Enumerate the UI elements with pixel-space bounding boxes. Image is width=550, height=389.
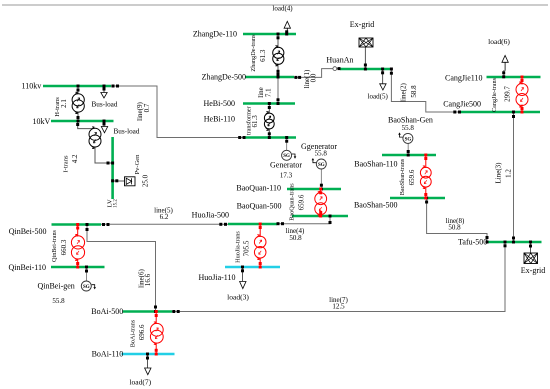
junction dots BoAi-110 xyxy=(146,353,149,356)
svg-text:25.0: 25.0 xyxy=(142,174,150,187)
svg-text:659.6: 659.6 xyxy=(297,194,305,210)
bus CangJie110 xyxy=(487,76,541,79)
svg-text:HuoJia-trans: HuoJia-trans xyxy=(235,231,242,263)
svg-text:10kV: 10kV xyxy=(33,117,51,126)
bus BaoQuan-500 xyxy=(292,215,348,218)
svg-text:load(6): load(6) xyxy=(488,37,510,46)
wire BaoQuan-trans stub top xyxy=(320,190,322,194)
svg-text:16.6: 16.6 xyxy=(144,273,152,286)
junction dots ZhangDe-110 xyxy=(277,33,280,36)
wire load(4) stem xyxy=(286,31,288,34)
external grid symbol Ex-grid top xyxy=(359,38,373,47)
wire ZhangDe-trans to ZhangDe-500 stub xyxy=(277,64,279,78)
wire line(1) after open circle xyxy=(337,68,340,70)
load arrow load(7) down xyxy=(145,368,151,375)
svg-text:BaoQuan-500: BaoQuan-500 xyxy=(237,201,282,210)
wire 10kV to I-trans xyxy=(78,122,92,129)
junction dots BaoQuan-500 xyxy=(329,215,332,218)
svg-text:BaoQuan-110: BaoQuan-110 xyxy=(236,183,281,192)
bus ZhangDe-500 xyxy=(245,76,294,79)
external grid symbol Ex-grid bottom xyxy=(524,253,538,264)
wire I-trans to LV bus xyxy=(95,147,113,164)
wire line(2) HuanAn to CangJie500 xyxy=(391,70,461,112)
wire QinBei-trans stub top xyxy=(77,226,79,237)
svg-text:CangJie110: CangJie110 xyxy=(445,74,482,83)
svg-text:55.8: 55.8 xyxy=(315,149,328,157)
wire line(7) Tafu-500 to BoAi-500 xyxy=(172,243,505,312)
wire Ex-grid bottom stem xyxy=(530,243,532,253)
svg-text:BaoShan-trans: BaoShan-trans xyxy=(399,158,406,195)
generator BaoShan-Gen xyxy=(403,133,413,143)
bus QinBei-110 xyxy=(51,266,105,269)
junction dots HuanAn xyxy=(338,67,341,70)
svg-text:58.8: 58.8 xyxy=(410,85,418,98)
transformer I-trans xyxy=(89,128,101,140)
bus BaoQuan-110 xyxy=(287,188,341,191)
svg-text:12.5: 12.5 xyxy=(332,303,345,311)
wire QinBei-gen stem xyxy=(86,268,88,282)
bus BoAi-110 xyxy=(122,353,175,356)
svg-text:660.3: 660.3 xyxy=(60,239,68,255)
svg-text:SG: SG xyxy=(405,137,412,142)
generator Generator (HeBi) xyxy=(282,150,292,160)
svg-text:Bus-load: Bus-load xyxy=(114,127,140,135)
svg-text:4.2: 4.2 xyxy=(71,154,79,163)
wire HeBi-500 to transformer stub xyxy=(268,105,270,114)
wire line ZhangDe-500 to HeBi-500 xyxy=(277,77,279,104)
junction dots QinBei-trans red xyxy=(76,223,79,226)
wire load(3) stem xyxy=(242,268,244,281)
bus 110kv xyxy=(43,85,111,88)
wire HuoJia-trans stub top xyxy=(259,225,261,237)
junction dots HuoJia-500 xyxy=(219,223,222,226)
bus CangJie500 xyxy=(461,111,540,114)
wire 110kv to H-trans stub top xyxy=(77,87,79,94)
transformer QinBei-trans xyxy=(71,236,84,249)
junction dots BaoQuan-110 xyxy=(320,184,323,187)
svg-text:LV: LV xyxy=(107,199,114,207)
bus HuoJia-110 xyxy=(225,266,280,269)
transformer HuoJia-trans xyxy=(254,236,266,248)
load arrow load(5) down xyxy=(380,84,386,90)
junction dots 10kV xyxy=(77,116,80,119)
wire BaoShan-Gen stem xyxy=(407,143,409,155)
svg-text:ZhangDe-trans: ZhangDe-trans xyxy=(250,34,257,72)
bus BoAi-500 xyxy=(123,310,173,313)
svg-text:QinBei-gen: QinBei-gen xyxy=(37,281,74,290)
bus Tafu-500 xyxy=(487,241,542,244)
open connection circle line(1) xyxy=(333,67,337,71)
svg-text:0.0: 0.0 xyxy=(310,73,318,82)
bus QinBei-500 xyxy=(52,223,102,226)
svg-text:load(5): load(5) xyxy=(368,92,389,100)
wire Ggenerator to BaoQuan-110 stem xyxy=(320,169,322,189)
bus BaoShan-500 xyxy=(390,197,445,200)
svg-text:61.3: 61.3 xyxy=(259,49,267,62)
svg-text:BoAi-trans: BoAi-trans xyxy=(130,319,137,347)
wire BaoQuan-trans stub bottom xyxy=(320,214,322,216)
svg-text:QinBei-110: QinBei-110 xyxy=(9,263,46,272)
svg-text:HeBi-500: HeBi-500 xyxy=(203,99,235,108)
svg-text:SG: SG xyxy=(318,163,325,168)
wire load(5) stem xyxy=(382,70,384,84)
svg-text:BaoShan-500: BaoShan-500 xyxy=(354,201,398,210)
wire load(7) stem xyxy=(147,355,149,368)
junction dots HeBi-110 xyxy=(238,136,241,139)
load arrow Bus-load 2 down xyxy=(101,127,107,133)
load arrow load(3) down xyxy=(240,282,246,289)
svg-text:Pv-Gen: Pv-Gen xyxy=(134,154,141,175)
junction dots BoAi-500 xyxy=(154,306,157,309)
svg-text:BoAi-110: BoAi-110 xyxy=(92,350,124,359)
junction dots ZhangDe-500 xyxy=(277,70,280,73)
svg-text:1.2: 1.2 xyxy=(505,169,513,178)
wire line(4) HuoJia-500 to BaoQuan-500 xyxy=(277,216,330,224)
bus ZhangDe-110 xyxy=(243,33,296,36)
svg-text:BaoQuan-trans: BaoQuan-trans xyxy=(288,183,295,221)
wire Bus-load2 stem xyxy=(103,122,105,127)
junction dots HeBi-500 xyxy=(277,98,280,101)
svg-text:load(4): load(4) xyxy=(272,5,293,13)
svg-text:CangJie-trans: CangJie-trans xyxy=(491,77,498,112)
transformer BaoQuan-trans xyxy=(315,193,327,205)
svg-text:ZhangDe-500: ZhangDe-500 xyxy=(202,73,246,82)
junction dots HuoJia-trans red xyxy=(259,223,262,226)
wire line(1) ZhangDe-500 to HuanAn xyxy=(294,69,333,78)
junction dots BaoShan-110 xyxy=(407,150,410,153)
wire HeBi-110 to Generator stem xyxy=(286,139,288,151)
svg-text:HuoJia-500: HuoJia-500 xyxy=(192,210,229,219)
wire line(9) 110kv to HeBi-110 xyxy=(111,86,245,138)
wire CangJie-trans stub top xyxy=(521,78,523,85)
transformer BaoShan-trans xyxy=(420,167,431,178)
junction dots BaoShan-500 xyxy=(425,197,428,200)
svg-text:659.6: 659.6 xyxy=(408,169,416,185)
junction dots CangJie-trans red xyxy=(521,76,524,79)
wire BaoShan-trans stub top xyxy=(425,156,427,168)
wire HuoJia-trans stub bottom xyxy=(259,258,261,268)
svg-text:SG: SG xyxy=(83,285,90,290)
svg-text:6.2: 6.2 xyxy=(160,213,169,221)
wire CangJie-trans stub bottom xyxy=(521,105,523,113)
svg-text:55.8: 55.8 xyxy=(52,297,65,305)
wire line(6) QinBei-500 to BoAi-500 xyxy=(87,226,156,312)
transformer CangJie-trans xyxy=(516,84,528,96)
wire line(5) QinBei-500 to HuoJia-500 xyxy=(101,223,228,225)
bus 10kV xyxy=(51,120,114,123)
bus HuoJia-500 xyxy=(228,223,277,226)
svg-text:2.1: 2.1 xyxy=(60,99,68,108)
junction dots LV xyxy=(107,162,110,165)
junction dots BaoShan-trans red xyxy=(424,154,427,157)
svg-text:Line(3): Line(3) xyxy=(495,162,503,184)
load arrow load(6) up xyxy=(502,55,508,62)
svg-text:Ex-grid: Ex-grid xyxy=(521,266,545,275)
svg-text:load(3): load(3) xyxy=(227,293,249,302)
svg-text:15.2: 15.2 xyxy=(114,199,119,208)
wire BoAi-trans stub top xyxy=(155,313,157,325)
wire ZhangDe-110 to ZhangDe-trans stub xyxy=(277,35,279,48)
svg-text:QinBei-500: QinBei-500 xyxy=(9,227,47,236)
generator Ggenerator xyxy=(316,159,326,169)
junction dots QinBei-500 xyxy=(86,223,89,226)
junction dots Tafu-500 xyxy=(486,236,489,239)
transformer ZhangDe-trans xyxy=(273,47,284,58)
wire Line(3) CangJie500 to Tafu-500 xyxy=(513,113,515,242)
load arrow Bus-load 1 down xyxy=(101,93,107,99)
svg-text:17.3: 17.3 xyxy=(280,171,293,179)
bus LV (vertical) xyxy=(111,137,114,199)
svg-text:I-trans: I-trans xyxy=(62,155,69,172)
svg-text:50.8: 50.8 xyxy=(289,234,302,242)
svg-text:BoAi-500: BoAi-500 xyxy=(91,307,123,316)
transformer H-trans xyxy=(72,94,84,106)
svg-text:Bus-load: Bus-load xyxy=(92,100,118,108)
svg-text:0.7: 0.7 xyxy=(143,103,151,112)
top border rule xyxy=(2,4,548,6)
wire load(6) stem xyxy=(503,70,505,77)
svg-text:Ex-grid: Ex-grid xyxy=(350,20,374,29)
wire BoAi-trans stub bottom xyxy=(155,343,157,355)
junction dots 110kv xyxy=(77,85,80,88)
svg-text:705.5: 705.5 xyxy=(243,240,251,256)
wire Ex-grid top stem xyxy=(364,47,366,70)
junction dots BaoQuan-trans red xyxy=(319,188,322,191)
svg-text:CangJie500: CangJie500 xyxy=(443,100,481,109)
bus HuanAn xyxy=(340,68,393,71)
svg-text:50.8: 50.8 xyxy=(448,224,461,232)
svg-text:61.3: 61.3 xyxy=(251,115,259,128)
generator QinBei-gen xyxy=(81,281,91,291)
junction dots QinBei-110 xyxy=(85,266,88,269)
svg-text:QinBei-trans: QinBei-trans xyxy=(51,229,58,262)
Pv-Gen symbol xyxy=(125,177,136,186)
transformer BoAi-trans xyxy=(150,323,163,336)
wire LV bus to Pv-Gen xyxy=(113,180,125,182)
junction dots BoAi-trans red xyxy=(155,310,158,313)
wire H-trans to 10kV stub xyxy=(77,112,79,121)
wire transformer to HeBi-110 stub xyxy=(268,129,270,138)
wire Bus-load1 stem xyxy=(103,87,105,93)
svg-text:line(2): line(2) xyxy=(400,83,408,102)
wire line(8) BaoShan-500 to Tafu-500 xyxy=(427,199,487,242)
svg-text:Tafu-500: Tafu-500 xyxy=(458,238,487,247)
transformer transformer (HeBi) xyxy=(264,113,274,123)
svg-text:55.8: 55.8 xyxy=(402,124,415,132)
wire QinBei-trans stub bottom xyxy=(77,259,79,268)
bus HeBi-500 xyxy=(243,102,295,105)
junction dots CangJie110 xyxy=(502,71,505,74)
svg-text:SG: SG xyxy=(283,154,290,159)
svg-text:696.6: 696.6 xyxy=(138,324,146,340)
load arrow load(4) up xyxy=(284,21,290,28)
svg-text:ZhangDe-110: ZhangDe-110 xyxy=(193,30,237,39)
bus HeBi-110 xyxy=(244,136,296,139)
wire BaoShan-trans stub bottom xyxy=(425,187,427,199)
svg-text:load(7): load(7) xyxy=(129,378,151,387)
svg-text:7.1: 7.1 xyxy=(264,88,272,97)
svg-text:HuoJia-110: HuoJia-110 xyxy=(198,273,235,282)
bus BaoShan-110 xyxy=(382,154,436,157)
svg-text:HuanAn: HuanAn xyxy=(326,56,353,65)
svg-text:110kv: 110kv xyxy=(21,82,41,91)
junction dots CangJie500 xyxy=(453,111,456,114)
svg-text:HeBi-110: HeBi-110 xyxy=(204,115,235,124)
svg-text:Generator: Generator xyxy=(270,160,302,169)
svg-text:299.7: 299.7 xyxy=(504,86,512,102)
svg-text:BaoShan-110: BaoShan-110 xyxy=(354,160,397,169)
